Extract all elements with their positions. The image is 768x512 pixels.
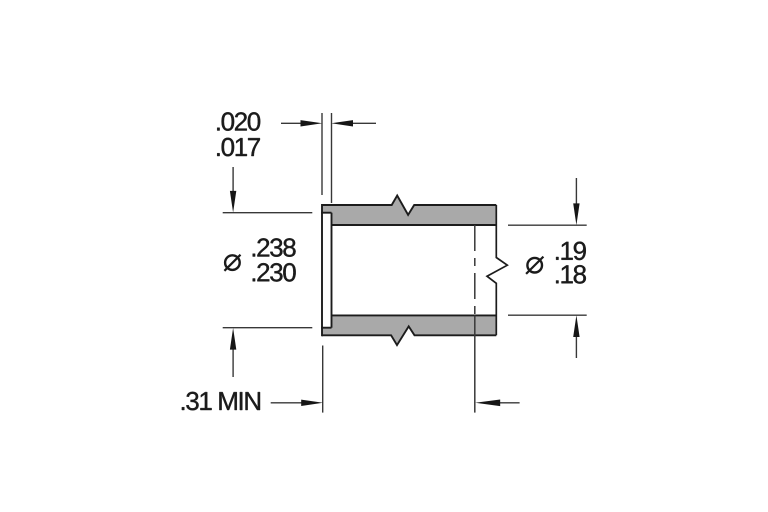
left entry face line [321,204,323,336]
right break line with zigzag [487,205,507,335]
lower arrow bore dia [573,315,579,358]
depth reference dash-dot line [474,225,476,413]
section fill lower wall [322,315,496,345]
counterbore top surface line [321,212,332,214]
section fill upper wall [322,196,496,226]
counterbore bottom face vertical line [331,213,333,328]
diameter symbol left [224,255,240,271]
diameter symbol right [526,257,543,274]
label .31 MIN [182,392,260,411]
hole bore top surface line [332,224,497,226]
part outline bottom edge with break zigzag [322,326,496,345]
label .238 [253,238,296,256]
dimension line .020 left segment with arrow [281,120,322,126]
extension line lower right bore dia [508,314,587,316]
dimension line .020 right segment with arrow [331,120,376,126]
label .017 [217,138,260,157]
dimension line .31 MIN right segment with arrow [475,400,519,407]
counterbore bottom surface line [321,327,332,329]
label .18 [556,265,586,284]
label .020 [217,112,260,131]
upper arrow counterbore dia [230,167,236,213]
part outline top edge with break zigzag [322,196,496,215]
hole bore bottom surface line [332,314,497,316]
extension line right of .020 dim [331,113,333,203]
extension line upper left counterbore dia [223,212,313,214]
label .19 [556,242,586,261]
extension line left of .31 MIN dim [322,346,324,413]
extension line lower left counterbore dia [223,327,313,329]
dimension line .31 MIN left segment with arrow [271,400,323,406]
lower arrow counterbore dia [230,328,236,377]
label .230 [253,263,296,282]
extension line left of .020 dim [321,113,323,195]
extension line upper right bore dia [508,224,587,226]
upper arrow bore dia [573,178,579,225]
